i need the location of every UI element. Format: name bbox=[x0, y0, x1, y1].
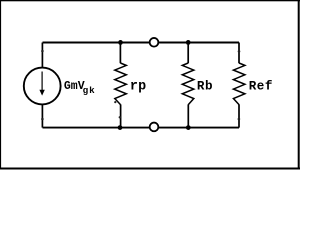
svg-text:gk: gk bbox=[83, 85, 96, 96]
wire: top rail bbox=[43, 42, 240, 44]
wire: rp branch stubs bbox=[119, 43, 121, 64]
junction dot rp top bbox=[118, 40, 123, 45]
svg-text:Ref: Ref bbox=[249, 80, 273, 94]
pin dot right bottom bbox=[238, 118, 241, 121]
svg-text:GmV: GmV bbox=[64, 80, 85, 93]
junction dot rp bottom bbox=[118, 125, 123, 130]
terminal node top bbox=[150, 38, 159, 47]
wire: bottom rail bbox=[43, 127, 240, 129]
terminal node bottom bbox=[150, 123, 159, 132]
resistor Rb bbox=[182, 63, 194, 105]
wire: Rb branch stubs bbox=[187, 43, 189, 64]
junction dot Rb bottom bbox=[186, 125, 191, 130]
pin dot left bottom bbox=[41, 118, 44, 121]
border frame bottom bbox=[0, 168, 300, 170]
pin dot right top bbox=[238, 50, 241, 53]
pin dot rp vertex bbox=[114, 101, 116, 103]
pin dot rp bottom bbox=[119, 116, 121, 118]
wire: right branch stubs bbox=[238, 43, 240, 64]
resistor Ref bbox=[233, 63, 245, 105]
svg-text:rp: rp bbox=[130, 80, 146, 95]
resistor rp bbox=[115, 63, 127, 105]
wire: left branch bbox=[41, 43, 43, 128]
border frame top bbox=[0, 0, 300, 1]
current source U1 circle bbox=[24, 68, 61, 105]
svg-text:Rb: Rb bbox=[197, 80, 213, 94]
border frame left bbox=[0, 0, 1, 170]
pin dot left top bbox=[41, 50, 44, 53]
current source arrow bbox=[41, 72, 43, 92]
junction dot Rb top bbox=[186, 40, 191, 45]
border frame right bbox=[298, 0, 300, 170]
